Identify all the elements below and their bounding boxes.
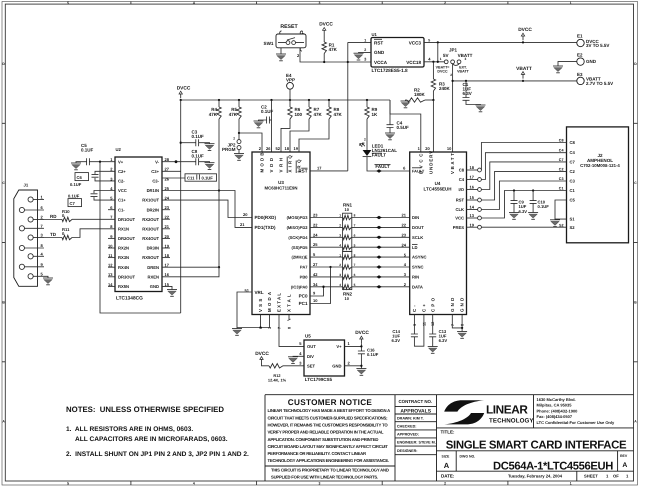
svg-text:GND: GND — [374, 50, 385, 55]
wire net C2 — [481, 171, 566, 200]
svg-text:6.3V: 6.3V — [519, 209, 528, 214]
svg-text:26: 26 — [266, 146, 271, 151]
svg-text:42: 42 — [313, 272, 318, 277]
svg-text:0.1UF: 0.1UF — [68, 194, 80, 199]
svg-text:3: 3 — [339, 273, 341, 277]
wire PC1 to PA7 row — [310, 267, 331, 304]
svg-text:ASYNC: ASYNC — [412, 255, 427, 260]
svg-text:LTC Confidential-For Customer: LTC Confidential-For Customer Use Only — [537, 420, 615, 425]
wire C3+ pin27 — [162, 170, 181, 172]
svg-text:26: 26 — [165, 176, 170, 181]
svg-text:C8: C8 — [559, 139, 564, 143]
wire U2 left pin stubs — [108, 209, 115, 211]
resistor R6 — [289, 100, 291, 107]
svg-text:8: 8 — [354, 253, 356, 257]
ground (E2) — [558, 62, 577, 66]
svg-text:V-: V- — [155, 159, 160, 164]
svg-text:HOWEVER, IT REMAINS THE CUSTOM: HOWEVER, IT REMAINS THE CUSTOMER'S RESPO… — [268, 423, 389, 428]
svg-text:8: 8 — [354, 214, 356, 218]
svg-text:RX5N: RX5N — [118, 284, 129, 289]
svg-text:RX3OUT: RX3OUT — [142, 226, 159, 231]
svg-text:TECHNOLOGY: TECHNOLOGY — [489, 418, 534, 425]
svg-text:Tuesday, February 24, 2004: Tuesday, February 24, 2004 — [508, 473, 563, 478]
svg-text:8: 8 — [461, 324, 465, 326]
svg-text:DC564A-1*LTC4556EUH: DC564A-1*LTC4556EUH — [493, 460, 613, 472]
svg-text:(2MHz)E: (2MHz)E — [292, 255, 308, 260]
wire XIRQ overline — [287, 157, 296, 174]
svg-text:VPP: VPP — [286, 77, 295, 82]
wire JP1-2 down to U4 VBATT — [452, 64, 454, 152]
svg-text:C7: C7 — [570, 159, 576, 164]
svg-text:LTC1348CG: LTC1348CG — [116, 296, 143, 302]
svg-text:17: 17 — [317, 165, 322, 170]
wire U3 RST to reset net — [310, 170, 348, 172]
svg-text:2: 2 — [233, 137, 235, 141]
svg-text:24: 24 — [313, 232, 318, 237]
svg-text:GND: GND — [586, 59, 597, 64]
svg-text:RXEN: RXEN — [147, 274, 159, 279]
wire DVCC to U4 pin1 — [390, 100, 421, 152]
svg-text:C2: C2 — [559, 167, 564, 171]
LED LED1 — [366, 119, 368, 150]
svg-text:A: A — [444, 461, 450, 470]
svg-text:SCLK: SCLK — [412, 235, 423, 240]
wire R5 to MODB / JP2 — [239, 119, 262, 152]
svg-text:PC1: PC1 — [299, 301, 308, 306]
svg-text:DREN: DREN — [147, 265, 159, 270]
svg-text:C1+: C1+ — [118, 198, 126, 203]
svg-text:U2: U2 — [116, 147, 122, 152]
IC U4 LTC4556EUH — [410, 152, 467, 315]
svg-text:PRGM: PRGM — [222, 147, 236, 152]
svg-text:S1: S1 — [570, 217, 576, 222]
svg-text:U1: U1 — [372, 32, 378, 37]
svg-text:DR1OUT: DR1OUT — [118, 217, 135, 222]
wire VDD up to bus — [271, 100, 273, 152]
wire VCC18/JP1 row — [424, 61, 445, 63]
wire DREN/RXEN to R4 — [162, 267, 219, 277]
svg-text:CHECKED:: CHECKED: — [397, 425, 416, 429]
svg-text:C702-10M008-121-4: C702-10M008-121-4 — [580, 163, 620, 168]
capacitor C6 — [95, 171, 115, 181]
svg-text:DVCC: DVCC — [355, 330, 369, 336]
svg-text:C3-: C3- — [152, 179, 159, 184]
svg-text:47K: 47K — [329, 47, 338, 52]
wire DR1IN pin25 to R4 and U3 PD1 — [162, 191, 252, 228]
svg-text:180K: 180K — [414, 92, 426, 97]
svg-text:C3: C3 — [570, 179, 576, 184]
svg-text:VRH: VRH — [279, 155, 284, 172]
svg-text:SET: SET — [307, 364, 316, 369]
svg-text:6: 6 — [354, 273, 356, 277]
ground (U3 VSS) — [236, 328, 238, 329]
svg-text:0.1UF: 0.1UF — [81, 148, 94, 153]
wire net C1 — [481, 191, 566, 219]
svg-text:5: 5 — [67, 482, 69, 486]
svg-text:1630 McCarthy Blvd.: 1630 McCarthy Blvd. — [537, 397, 576, 402]
svg-text:(MISO)PD2: (MISO)PD2 — [287, 225, 309, 230]
wire U5 GND — [345, 366, 362, 369]
svg-text:RX2N: RX2N — [118, 246, 129, 251]
svg-text:100: 100 — [295, 112, 303, 117]
svg-text:RX3N: RX3N — [118, 255, 129, 260]
svg-text:VRL: VRL — [255, 290, 264, 295]
wire VCC3 to E1 rail — [424, 41, 577, 43]
svg-text:DWG NO.: DWG NO. — [460, 454, 476, 458]
capacitor C7 — [94, 191, 115, 201]
ground (C13) — [428, 346, 438, 348]
svg-text:PD1(TXD): PD1(TXD) — [255, 225, 276, 230]
svg-text:2.7V TO 5.5V: 2.7V TO 5.5V — [586, 81, 613, 86]
ground (SW1) — [280, 48, 282, 54]
svg-text:PD0(RXD): PD0(RXD) — [255, 215, 277, 220]
ground (U5 GND) — [356, 368, 366, 370]
svg-text:5: 5 — [354, 243, 356, 247]
svg-text:25: 25 — [313, 242, 318, 247]
svg-text:47K: 47K — [314, 112, 323, 117]
svg-text:PB0: PB0 — [300, 275, 309, 280]
svg-text:3: 3 — [339, 234, 341, 238]
svg-text:DATE:: DATE: — [441, 474, 455, 479]
svg-text:52: 52 — [276, 146, 281, 151]
svg-text:19: 19 — [294, 146, 299, 151]
wire net C3 — [481, 181, 566, 210]
svg-text:VCC18: VCC18 — [406, 60, 421, 65]
svg-text:A: A — [622, 462, 627, 469]
wire net C4 — [481, 153, 566, 180]
svg-text:3: 3 — [465, 57, 467, 61]
svg-text:OF: OF — [613, 474, 619, 479]
svg-text:11: 11 — [422, 322, 426, 326]
ground (C1) — [476, 104, 486, 106]
svg-text:C+: C+ — [422, 302, 427, 312]
wire V+ supply loop — [100, 162, 181, 313]
svg-text:5V: 5V — [443, 53, 449, 58]
svg-text:18: 18 — [285, 146, 290, 151]
svg-text:7: 7 — [354, 224, 356, 228]
svg-text:18: 18 — [470, 165, 475, 170]
svg-text:UNDERV: UNDERV — [428, 150, 433, 174]
capacitor C11 — [162, 177, 185, 179]
node J1 pin 6 — [19, 207, 24, 212]
svg-text:DESIGNER:: DESIGNER: — [397, 449, 418, 453]
svg-text:APPLICATION. COMPONENT SUBSTI: APPLICATION. COMPONENT SUBSTITUTION AND … — [268, 437, 379, 442]
svg-text:47K: 47K — [229, 112, 238, 117]
svg-text:VERIFY PROPER AND RELIABLE OPE: VERIFY PROPER AND RELIABLE OPERATION IN … — [268, 430, 384, 435]
svg-text:DVCC: DVCC — [319, 21, 333, 27]
resistor R7 — [308, 100, 310, 107]
svg-text:LINEAR TECHNOLOGY HAS MADE A B: LINEAR TECHNOLOGY HAS MADE A BEST EFFORT… — [268, 408, 391, 413]
svg-text:Milpitas, CA 95035: Milpitas, CA 95035 — [537, 403, 573, 408]
svg-text:VBATT: VBATT — [516, 66, 532, 72]
svg-text:0.1UF: 0.1UF — [192, 134, 205, 139]
svg-text:PA7: PA7 — [300, 265, 308, 270]
title block frame — [265, 395, 634, 481]
svg-text:3V TO 5.5V: 3V TO 5.5V — [586, 43, 609, 48]
svg-text:XIRQ: XIRQ — [288, 153, 293, 173]
wire R6 to VRH — [281, 119, 290, 152]
svg-text:9: 9 — [413, 324, 417, 326]
svg-text:S2: S2 — [559, 223, 564, 227]
wire R4 pull-up vertical — [218, 119, 220, 267]
svg-text:1: 1 — [570, 1, 572, 5]
node DVCC bus junctions — [180, 99, 182, 101]
svg-text:7: 7 — [354, 263, 356, 267]
svg-text:RST: RST — [374, 40, 383, 45]
svg-text:(IC3)PA0: (IC3)PA0 — [291, 284, 308, 289]
svg-text:Fax: (408)434-0507: Fax: (408)434-0507 — [537, 414, 573, 419]
svg-text:CPO: CPO — [430, 296, 435, 312]
svg-text:RX4N: RX4N — [118, 265, 129, 270]
svg-text:22: 22 — [313, 222, 318, 227]
svg-text:GND: GND — [150, 284, 159, 289]
svg-text:DVCC: DVCC — [437, 69, 448, 73]
svg-text:C1: C1 — [570, 188, 576, 193]
svg-text:LINEAR: LINEAR — [486, 402, 528, 416]
svg-text:DR2IN: DR2IN — [147, 207, 159, 212]
svg-text:C1: C1 — [559, 187, 564, 191]
svg-text:PC0: PC0 — [299, 294, 308, 299]
svg-text:LTC1799CS5: LTC1799CS5 — [305, 377, 333, 382]
svg-text:C-: C- — [412, 303, 417, 312]
svg-text:CONTRACT NO.: CONTRACT NO. — [399, 399, 433, 404]
svg-text:PERFORMANCE OR RELIABILITY. C: PERFORMANCE OR RELIABILITY. CONTACT LINE… — [268, 451, 366, 456]
svg-text:2: 2 — [444, 482, 446, 486]
svg-text:16: 16 — [470, 185, 475, 190]
node J1 pin 2 — [28, 217, 33, 222]
svg-text:SHEET: SHEET — [584, 474, 598, 479]
svg-text:RST: RST — [298, 169, 307, 174]
wire data row 2 — [310, 226, 343, 228]
wire R3/R2 node to U4 UNDERV — [432, 100, 434, 152]
svg-text:20: 20 — [243, 212, 248, 217]
svg-text:RX4OUT: RX4OUT — [142, 236, 159, 241]
svg-text:2: 2 — [339, 263, 341, 267]
resistor R8 — [328, 100, 330, 107]
svg-text:10: 10 — [313, 298, 318, 303]
svg-text:DVCC: DVCC — [177, 85, 191, 91]
wire net C8 — [481, 143, 566, 171]
svg-text:S2: S2 — [570, 225, 576, 230]
svg-text:0.1UF: 0.1UF — [70, 182, 82, 187]
svg-text:240K: 240K — [439, 86, 451, 91]
svg-text:VCCA: VCCA — [374, 60, 388, 65]
svg-text:6.3V: 6.3V — [439, 338, 448, 343]
svg-text:TD: TD — [50, 232, 57, 237]
wire net S2 (PRES) — [481, 226, 566, 228]
wire DVCC bus — [181, 99, 390, 101]
svg-text:6.3V: 6.3V — [463, 91, 472, 96]
svg-text:JP1: JP1 — [449, 48, 458, 53]
node J1 pin 3 — [28, 235, 33, 240]
svg-text:VSS: VSS — [258, 296, 263, 312]
svg-text:SYNC: SYNC — [412, 265, 424, 270]
svg-text:J1: J1 — [24, 183, 29, 188]
svg-text:U4: U4 — [435, 181, 441, 186]
ground (J1 pin5) — [44, 276, 48, 278]
svg-text:4: 4 — [193, 482, 195, 486]
svg-text:SINGLE SMART CARD INTERFACE: SINGLE SMART CARD INTERFACE — [446, 439, 627, 451]
svg-text:2: 2 — [364, 48, 366, 52]
svg-text:RESET: RESET — [280, 24, 298, 30]
wire data row 5 — [310, 256, 343, 258]
svg-text:I/O: I/O — [458, 187, 464, 192]
svg-text:MODA: MODA — [267, 290, 272, 312]
svg-text:C3: C3 — [559, 177, 564, 181]
svg-text:REV: REV — [620, 454, 628, 458]
svg-text:VDD: VDD — [269, 155, 274, 172]
svg-text:PRES: PRES — [453, 225, 465, 230]
wire LED to U4 FAULT — [367, 157, 410, 171]
svg-text:6: 6 — [354, 234, 356, 238]
svg-text:C2+: C2+ — [118, 169, 126, 174]
svg-text:47K: 47K — [209, 112, 218, 117]
ground (C2) — [254, 120, 264, 122]
svg-text:DIV: DIV — [307, 354, 314, 359]
svg-text:V+: V+ — [336, 344, 342, 349]
svg-text:0.1UF: 0.1UF — [192, 154, 205, 159]
svg-text:AMPHENOL: AMPHENOL — [587, 158, 613, 163]
ground (C10) — [528, 212, 538, 214]
wire U2 right pin stubs — [162, 209, 170, 211]
svg-text:DIN: DIN — [412, 215, 419, 220]
svg-text:21: 21 — [402, 213, 407, 218]
resistor network RN2 — [343, 251, 352, 289]
svg-text:VBATT: VBATT — [457, 69, 470, 73]
svg-text:C6: C6 — [77, 175, 83, 180]
resistor R5 — [238, 100, 240, 107]
wire data row 7 — [310, 276, 343, 278]
svg-text:(SCK)PD4: (SCK)PD4 — [288, 235, 308, 240]
svg-text:E3: E3 — [577, 72, 583, 77]
svg-text:C7: C7 — [559, 158, 564, 162]
svg-text:6.3V: 6.3V — [391, 338, 400, 343]
svg-text:4: 4 — [339, 243, 341, 247]
svg-text:VCC3: VCC3 — [409, 40, 422, 45]
node J1 pin 4 — [28, 254, 33, 259]
resistor R3 — [432, 62, 434, 79]
ground (R2) — [406, 100, 408, 101]
svg-text:C8: C8 — [570, 140, 576, 145]
svg-text:4: 4 — [193, 1, 195, 5]
svg-text:CUSTOMER NOTICE: CUSTOMER NOTICE — [288, 398, 373, 407]
svg-text:MODB: MODB — [260, 150, 265, 172]
wire RX1OUT pin24 to U3 PD0 — [162, 200, 252, 217]
svg-text:10: 10 — [345, 207, 350, 212]
svg-text:14: 14 — [470, 205, 475, 210]
wire VRL — [237, 292, 252, 328]
svg-text:2: 2 — [339, 224, 341, 228]
svg-text:C4: C4 — [570, 150, 576, 155]
svg-text:DVCC: DVCC — [518, 27, 532, 33]
svg-text:RX1N: RX1N — [118, 226, 129, 231]
svg-text:LD: LD — [412, 245, 418, 250]
svg-text:15: 15 — [470, 195, 475, 200]
wire PC0 to PA0 row — [310, 287, 324, 296]
svg-text:RD: RD — [50, 214, 57, 219]
svg-text:E2: E2 — [577, 53, 583, 58]
wire VBATT rail — [453, 80, 577, 82]
wire R7 to XIRQ — [290, 119, 309, 152]
svg-text:CLK: CLK — [455, 207, 464, 212]
svg-text:27: 27 — [313, 262, 318, 267]
svg-text:2: 2 — [444, 1, 446, 5]
wire EXTAL to U5 OUT — [279, 315, 304, 347]
wire C5/S1 to ground — [555, 200, 567, 220]
svg-text:LTC4556EUH: LTC4556EUH — [424, 187, 452, 192]
svg-text:2: 2 — [364, 138, 366, 142]
svg-text:DOUT: DOUT — [412, 225, 424, 230]
svg-text:24: 24 — [402, 242, 407, 247]
svg-text:7: 7 — [451, 324, 455, 326]
svg-text:10: 10 — [345, 296, 350, 301]
svg-text:RX2OUT: RX2OUT — [142, 217, 159, 222]
capacitor C10 — [532, 189, 534, 191]
ground (C9) — [509, 212, 519, 214]
svg-text:VBATT: VBATT — [450, 151, 455, 174]
wire VCCA row — [348, 61, 371, 63]
svg-text:DATA: DATA — [412, 284, 423, 289]
svg-text:4: 4 — [339, 283, 341, 287]
svg-text:V+: V+ — [118, 159, 124, 164]
node J1 pin 8 — [19, 245, 24, 250]
svg-text:SW1: SW1 — [264, 41, 274, 46]
ground (JP2) — [234, 153, 244, 155]
svg-text:EXTAL: EXTAL — [277, 292, 282, 312]
svg-text:U5: U5 — [305, 334, 311, 339]
svg-text:1: 1 — [364, 38, 366, 42]
svg-text:CIRCUIT BOARD LAYOUT MAY SIGNI: CIRCUIT BOARD LAYOUT MAY SIGNIFICANTLY A… — [268, 444, 389, 449]
svg-text:1: 1 — [440, 57, 442, 61]
svg-text:VCC: VCC — [118, 188, 127, 193]
svg-text:3: 3 — [318, 1, 320, 5]
wire data row 6 — [310, 266, 343, 268]
svg-text:47K: 47K — [334, 112, 343, 117]
svg-text:TECHNOLOGY APPLICATIONS ENGINE: TECHNOLOGY APPLICATIONS ENGINEERING FOR … — [268, 458, 389, 463]
wire net C7 — [481, 162, 566, 190]
svg-text:C2: C2 — [570, 169, 576, 174]
capacitor C9 — [513, 189, 515, 191]
svg-text:APPROVED:: APPROVED: — [397, 433, 419, 437]
svg-text:C2-: C2- — [118, 179, 125, 184]
svg-text:12: 12 — [431, 322, 435, 326]
node J1 pin 5 — [28, 274, 33, 279]
wire VSS/MODA to ground — [237, 315, 270, 328]
svg-text:13: 13 — [470, 213, 475, 218]
svg-text:34: 34 — [313, 282, 318, 287]
svg-text:5: 5 — [354, 283, 356, 287]
svg-text:DR2OUT: DR2OUT — [118, 236, 135, 241]
svg-text:2. INSTALL SHUNT ON JP1 PIN 2: 2. INSTALL SHUNT ON JP1 PIN 2 AND 3, JP2… — [66, 451, 249, 458]
svg-text:MC68HC711E9N: MC68HC711E9N — [265, 186, 298, 191]
svg-text:E1: E1 — [577, 34, 583, 39]
svg-text:(MOSI)PD3: (MOSI)PD3 — [287, 215, 309, 220]
wire U4 GND pins — [452, 315, 462, 332]
svg-text:C4: C4 — [459, 177, 465, 182]
ground (C4) — [385, 132, 395, 134]
svg-text:22: 22 — [402, 223, 407, 228]
logo Linear Technology — [444, 400, 484, 411]
node XTAL stub — [288, 315, 291, 321]
ground (U5 DIV) — [293, 355, 304, 358]
svg-text:8: 8 — [288, 327, 292, 329]
svg-text:1: 1 — [570, 482, 572, 486]
svg-text:SIZE: SIZE — [442, 454, 450, 458]
svg-text:SUPPLIED FOR USE WITH LINEAR T: SUPPLIED FOR USE WITH LINEAR TECHNOLOGY … — [271, 474, 378, 479]
svg-text:Phone: (408)432-1900: Phone: (408)432-1900 — [537, 408, 579, 413]
svg-text:C3+: C3+ — [151, 169, 159, 174]
svg-text:C7: C7 — [70, 201, 76, 206]
